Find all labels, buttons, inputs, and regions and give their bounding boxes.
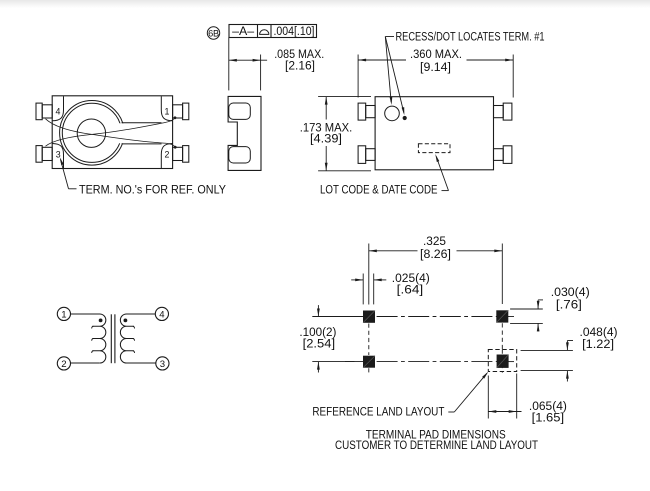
svg-text:4: 4 (55, 107, 60, 117)
reference land dashed box (488, 350, 516, 372)
svg-text:2: 2 (165, 150, 170, 160)
svg-text:[.76]: [.76] (556, 297, 582, 311)
lot code dashed box (418, 144, 450, 153)
pad top-left (363, 311, 375, 323)
svg-text:TERM. NO.'s FOR REF. ONLY: TERM. NO.'s FOR REF. ONLY (79, 183, 226, 197)
primary bottom lead (71, 362, 100, 364)
svg-text:6B: 6B (208, 28, 219, 38)
corner hook bottom-left (52, 144, 63, 169)
svg-text:1: 1 (165, 107, 170, 117)
recess/dot label and leaders (385, 29, 544, 115)
feature control frame (229, 25, 317, 38)
svg-text:CUSTOMER TO DETERMINE LAND LAY: CUSTOMER TO DETERMINE LAND LAYOUT (335, 438, 538, 452)
secondary winding right hooks (133, 326, 135, 353)
solder dot at terminal 2 (174, 146, 177, 149)
vertical dashed connector right column (501, 323, 503, 349)
schematic pin 3 circle (156, 357, 169, 370)
svg-text:[1.65]: [1.65] (532, 411, 565, 425)
channel white-out (109, 123, 162, 143)
phasing dot primary (99, 319, 103, 323)
leader from terminal 3 to note (60, 157, 77, 189)
channel top line (122, 122, 162, 124)
svg-text:.360 MAX.: .360 MAX. (410, 47, 462, 61)
row 2 centerline (345, 361, 514, 363)
svg-text:.325: .325 (423, 234, 446, 248)
row 1 centerline (345, 316, 514, 318)
svg-text:2: 2 (61, 359, 66, 370)
view1: component top view body (52, 96, 172, 169)
dim .100 extension lines (312, 317, 354, 362)
vertical stub below pad bottom-left (368, 368, 370, 373)
dim .360 extension lines (358, 55, 513, 98)
dim .085 dimension line with arrows (229, 59, 267, 62)
wire terminal3 to terminal1 (46, 117, 176, 146)
svg-text:–A–: –A– (232, 24, 254, 38)
svg-text:.004[.10]: .004[.10] (274, 24, 315, 38)
corner hook top-left (52, 96, 63, 121)
svg-text:[8.26]: [8.26] (420, 247, 451, 261)
dim .048 arrows (566, 341, 573, 382)
schematic pin 1 circle (57, 307, 70, 320)
corner hook bottom-right (161, 144, 172, 169)
dim .100 arrows (317, 305, 320, 372)
view3 terminal bottom-right (494, 146, 512, 164)
svg-text:[2.54]: [2.54] (303, 336, 336, 350)
side view outline with notch (228, 96, 261, 170)
dim .173 dimension line (325, 97, 328, 171)
dim .065 extension lines (488, 374, 516, 419)
toroid core circles (60, 101, 125, 166)
svg-text:3: 3 (160, 359, 165, 370)
locating dot (403, 116, 407, 120)
secondary bottom lead (127, 362, 156, 364)
dim .085 extension line right (260, 55, 262, 91)
channel bottom line (122, 143, 162, 145)
pad bottom-left (363, 356, 375, 368)
profile symbol (259, 30, 269, 35)
view3 terminal bottom-left (358, 146, 375, 164)
view1 terminal 3 (bottom-left) (36, 146, 52, 163)
vertical dashed connector left column (368, 324, 370, 356)
svg-text:[4.39]: [4.39] (310, 131, 342, 145)
vertical line through pad bottom-right (501, 350, 503, 373)
solder dot at terminal 1 (174, 116, 177, 119)
phasing dot secondary (124, 319, 128, 323)
dim .030 extension lines (510, 309, 543, 323)
corner hook top-right (161, 96, 172, 121)
lot code label and leader (320, 154, 449, 197)
svg-text:4: 4 (159, 309, 165, 320)
view1 terminal 2 (bottom-right) (173, 146, 189, 163)
recess circle (385, 106, 400, 121)
svg-text:REFERENCE LAND LAYOUT: REFERENCE LAND LAYOUT (312, 405, 444, 419)
schematic pin 4 circle (155, 307, 168, 320)
view1 terminal 4 (top-left) (36, 103, 52, 120)
dim .325 extension lines (369, 244, 503, 305)
dim .085 extension line left / datum leader (228, 38, 230, 91)
primary winding with leads (71, 314, 106, 363)
dim .360 dimension line (358, 59, 513, 62)
svg-text:[2.16]: [2.16] (285, 58, 315, 72)
dim .065 dimension line (488, 410, 521, 413)
view3 terminal top-left (358, 103, 375, 120)
svg-text:1: 1 (61, 309, 66, 320)
toroid center hole (77, 119, 105, 147)
dim .173 extension lines (318, 97, 371, 171)
wire terminal4 to terminal2 (46, 119, 177, 148)
secondary winding with leads (120, 314, 155, 363)
core line left (110, 314, 112, 363)
pad bottom-right (497, 355, 509, 368)
reference land layout label and leader (312, 372, 488, 419)
balloon 6B (207, 27, 219, 39)
schematic pin 2 circle (57, 357, 70, 370)
primary winding left hooks (92, 326, 94, 353)
dim .325 dimension line (369, 250, 503, 253)
svg-text:[9.14]: [9.14] (420, 60, 451, 74)
view3 terminal top-right (494, 103, 512, 120)
side view terminal pad top (229, 103, 251, 119)
dim .030 arrows (537, 300, 543, 332)
svg-text:[1.22]: [1.22] (582, 337, 614, 351)
svg-text:RECESS/DOT LOCATES TERM. #1: RECESS/DOT LOCATES TERM. #1 (396, 29, 545, 43)
side view terminal pad bottom (229, 147, 251, 163)
dim .048 extension lines (521, 350, 573, 370)
dim .025 arrows (351, 279, 386, 282)
svg-text:[.64]: [.64] (397, 283, 424, 297)
svg-text:LOT CODE & DATE CODE: LOT CODE & DATE CODE (320, 183, 438, 197)
dim .025 extension lines (363, 274, 374, 305)
pad top-right (496, 310, 508, 322)
core line right (114, 314, 116, 363)
view1 terminal 1 (top-right) (173, 103, 189, 120)
view3 body (375, 97, 493, 170)
